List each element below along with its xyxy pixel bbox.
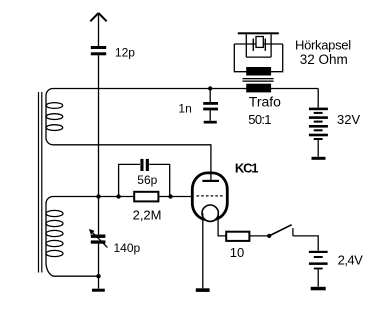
ground under cathode (196, 288, 210, 292)
svg-text:10: 10 (230, 245, 244, 260)
svg-text:50:1: 50:1 (248, 112, 271, 127)
ground under 1n (204, 121, 217, 124)
wire switch to battery (293, 236, 318, 251)
svg-text:32V: 32V (337, 112, 360, 127)
battery 2,4V (309, 251, 328, 270)
battery 32V (309, 108, 328, 140)
node junction anode/1n (208, 86, 212, 90)
inductor L2 bottom coil (46, 197, 53, 262)
capacitor C 56p (140, 159, 149, 171)
node junction RC left (116, 194, 120, 198)
wire L2 bottom (54, 275, 99, 277)
wire top right down to 32V (317, 89, 319, 108)
svg-text:Trafo: Trafo (249, 94, 281, 110)
wire L1 top to right (53, 88, 318, 90)
antenna (90, 13, 106, 21)
ground under L2 (92, 289, 105, 292)
wire main vertical column (98, 55, 100, 196)
node junction RC right (168, 194, 172, 198)
wire cathode left lead (202, 213, 204, 288)
earphone Hoerkapsel (238, 32, 279, 34)
arrow of variable cap (91, 231, 107, 247)
inductor L1 top coil (46, 89, 53, 139)
tube anode bar (202, 180, 219, 182)
wire antenna down to 12p (98, 13, 100, 46)
resistor R 10 (226, 232, 249, 241)
capacitor C 12p (91, 46, 106, 55)
ground under 2,4V (311, 287, 326, 291)
tube grid dashed (197, 195, 224, 197)
variable capacitor C 140p (98, 197, 100, 235)
wire resistor to switch (249, 235, 269, 237)
tube KC1 envelope (192, 173, 227, 220)
resistor R 2,2M (134, 192, 158, 202)
wire cathode right lead (218, 213, 226, 236)
core (iron core double line) (39, 92, 42, 273)
svg-text:KC1: KC1 (235, 161, 258, 176)
svg-text:1n: 1n (178, 102, 191, 116)
wire L1 bottom to anode (53, 145, 211, 180)
svg-text:56p: 56p (137, 173, 157, 187)
capacitor C 1n (209, 89, 211, 103)
svg-text:12p: 12p (115, 46, 135, 60)
svg-text:140p: 140p (114, 241, 141, 255)
tube cathode circle (202, 205, 218, 221)
svg-text:32 Ohm: 32 Ohm (300, 52, 348, 67)
wire 56p branch (119, 164, 170, 196)
svg-text:2,2M: 2,2M (133, 207, 162, 222)
wire grid line (53, 196, 193, 198)
node junction grid/main (96, 194, 100, 198)
svg-text:Hörkapsel: Hörkapsel (295, 38, 351, 53)
switch S1 (267, 234, 271, 238)
ground under 32V (312, 157, 326, 160)
transformer Trafo 50:1 (246, 67, 271, 76)
svg-text:2,4V: 2,4V (338, 253, 364, 268)
node junction L2 bottom (96, 274, 100, 278)
